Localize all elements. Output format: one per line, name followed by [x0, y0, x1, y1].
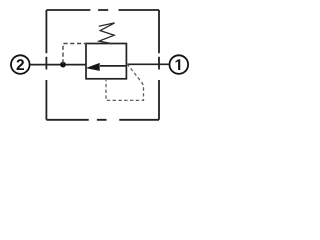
wire port 2 to valve [30, 64, 87, 66]
enclosure border left [45, 10, 47, 120]
node junction dot [60, 62, 66, 68]
arrow flow path [100, 65, 126, 67]
drain line dashed (right) [106, 64, 144, 101]
port circle 1 [170, 55, 189, 74]
valve body [86, 44, 126, 79]
port circle 2 [11, 55, 30, 74]
wire valve to port 1 [126, 63, 169, 65]
port 1 label [176, 59, 181, 70]
pilot line dashed (left) [63, 44, 87, 64]
enclosure border bottom [46, 119, 159, 121]
arrowhead [87, 63, 100, 70]
enclosure border right [158, 10, 160, 120]
spring [99, 23, 115, 44]
enclosure border top [46, 9, 159, 11]
port 2 label [17, 59, 24, 70]
